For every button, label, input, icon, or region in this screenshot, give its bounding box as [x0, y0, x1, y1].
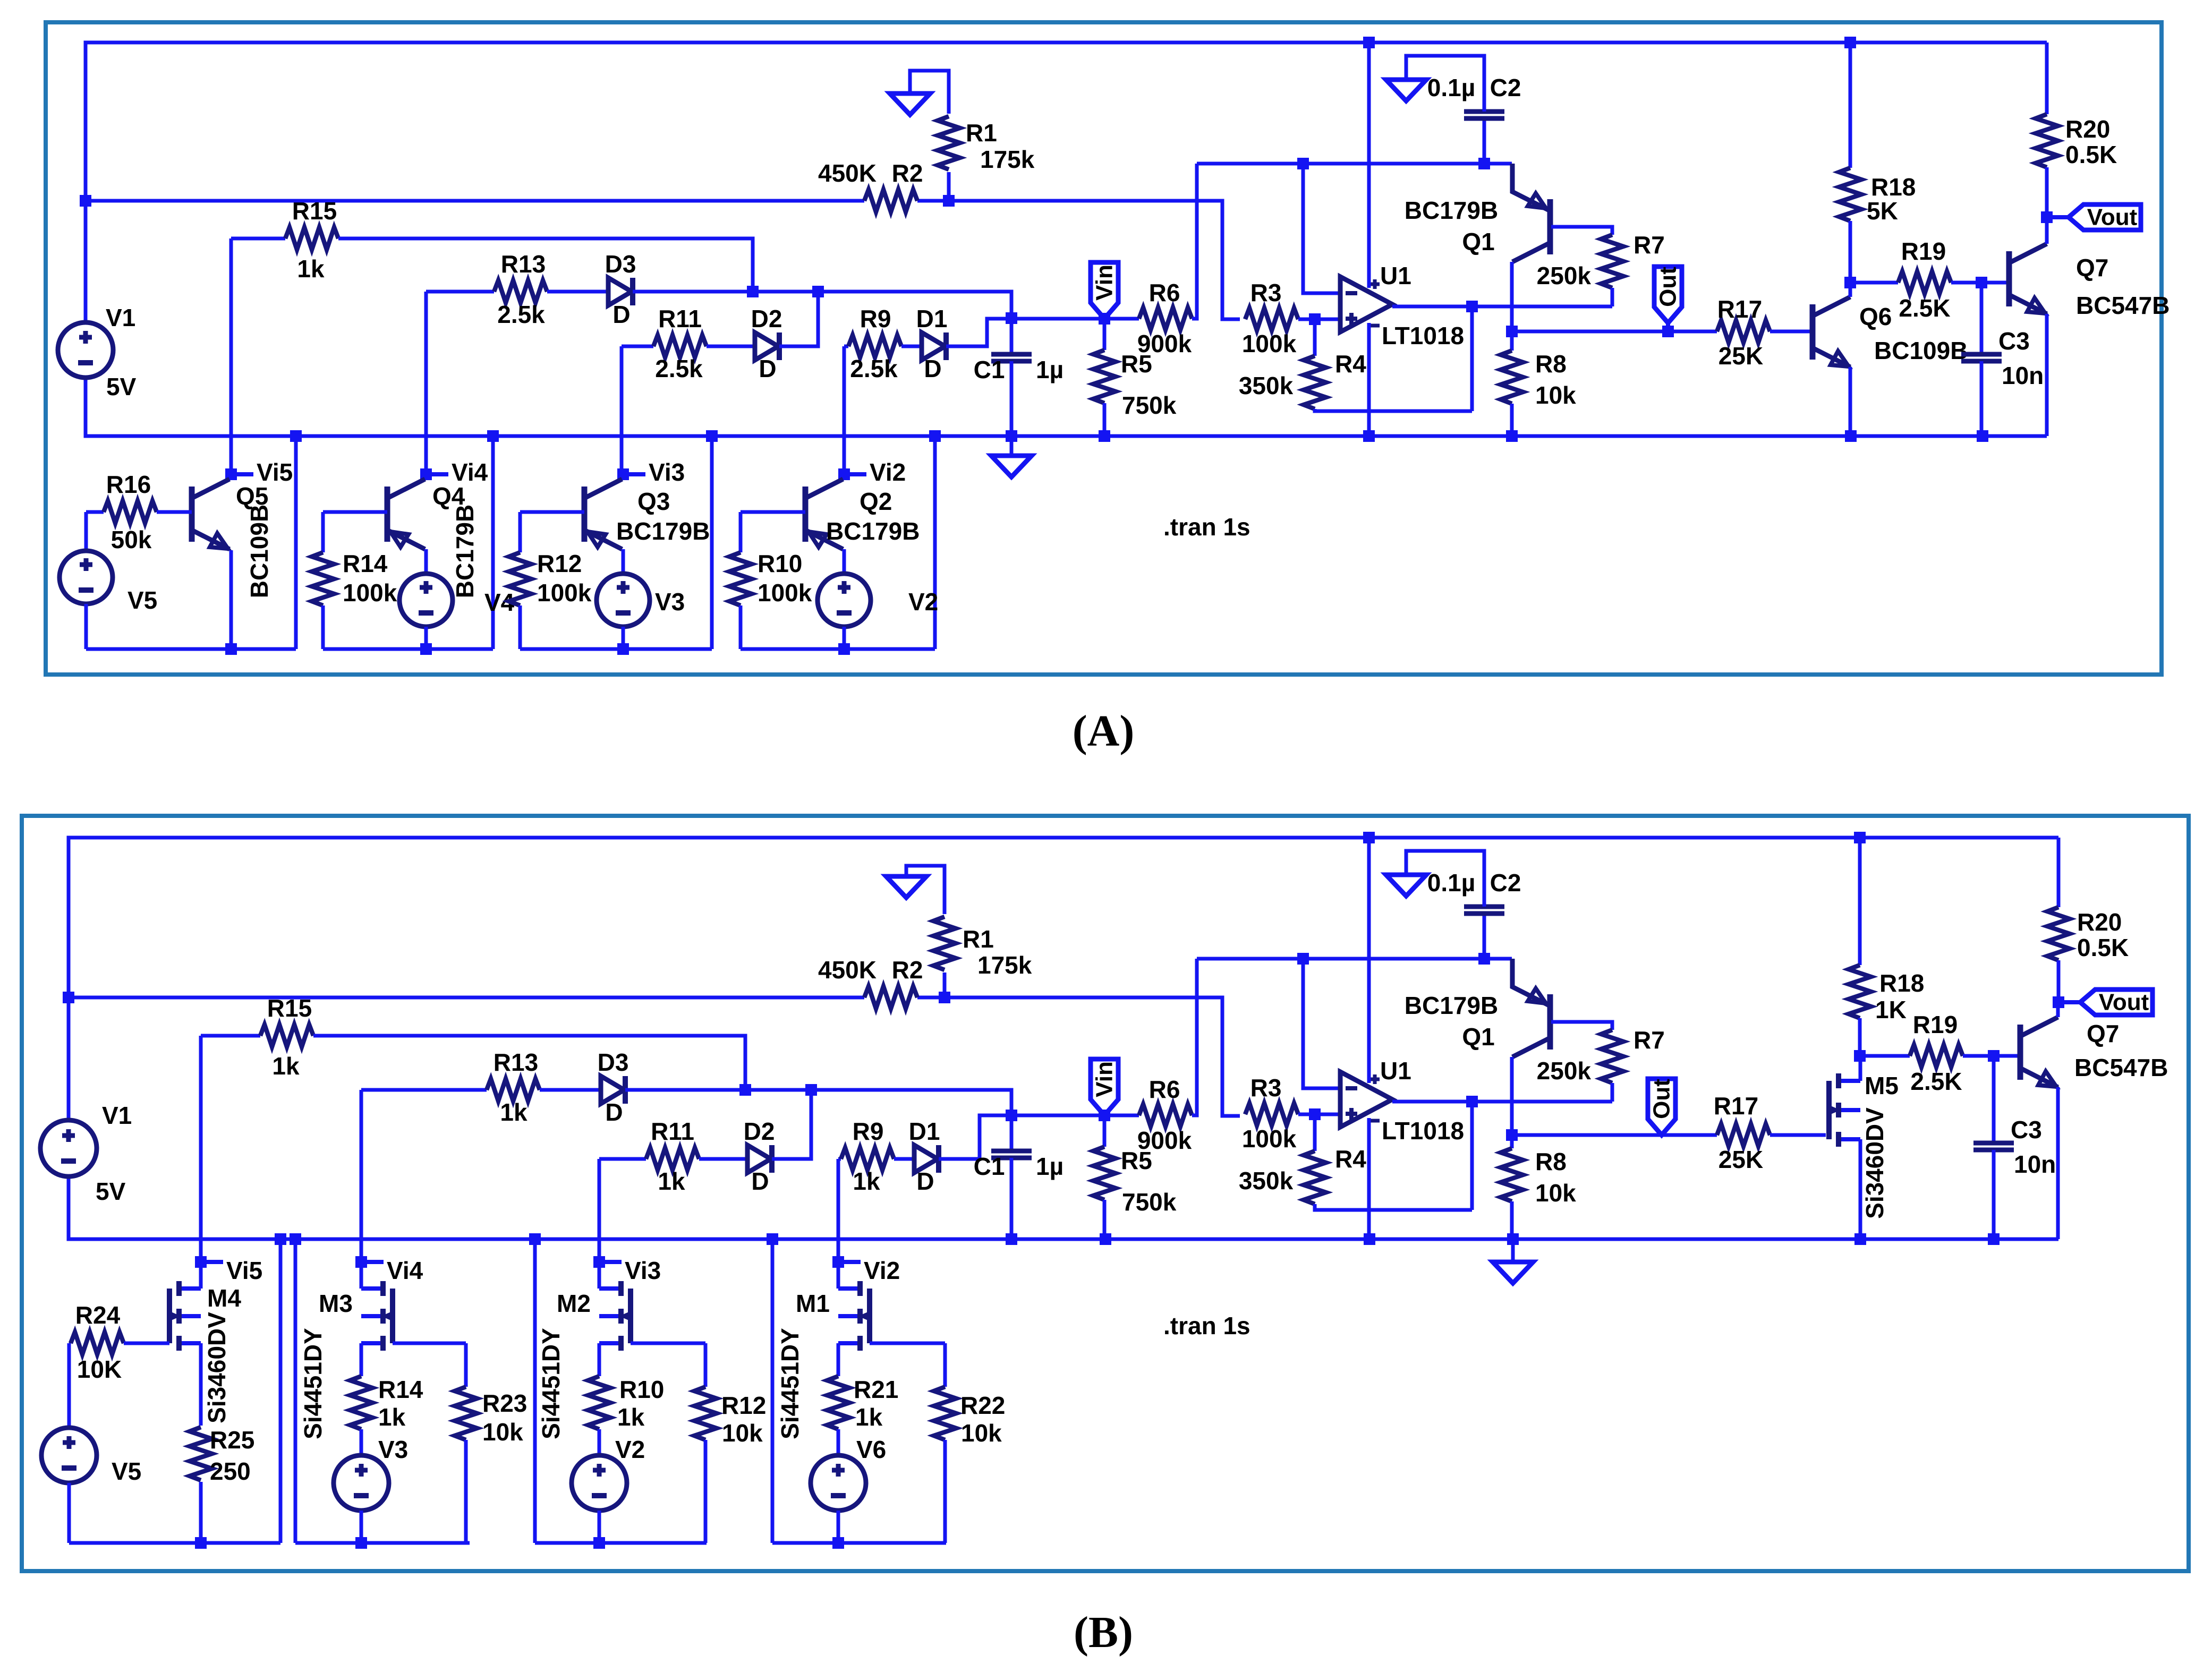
wire M4 drain lead	[199, 1262, 203, 1289]
flag node Out B	[1648, 1079, 1675, 1135]
voltage source V5	[59, 551, 113, 604]
junction R15/D3 row	[747, 286, 759, 297]
wire gate to pull resistor	[870, 1342, 945, 1345]
svg-text:1k: 1k	[272, 1052, 300, 1080]
wire R top lead	[321, 512, 325, 552]
svg-text:25K: 25K	[1718, 342, 1763, 370]
wire C1 bottom lead B	[1010, 1158, 1014, 1239]
wire	[424, 473, 428, 476]
svg-text:10K: 10K	[77, 1355, 122, 1383]
svg-text:1K: 1K	[1875, 996, 1907, 1023]
svg-text:D: D	[751, 1167, 769, 1195]
node Vi2	[850, 472, 866, 476]
svg-text:D3: D3	[598, 1048, 629, 1076]
svg-text:C2: C2	[1490, 869, 1521, 897]
wire drain lead	[360, 1262, 363, 1289]
svg-text:R22: R22	[960, 1392, 1005, 1419]
wire pull res top lead	[464, 1343, 468, 1387]
svg-text:350k: 350k	[1239, 1167, 1294, 1195]
svg-text:Si3460DV: Si3460DV	[1861, 1107, 1888, 1219]
resistor R7	[1601, 235, 1623, 288]
junction Vin node	[1099, 313, 1110, 325]
svg-text:V3: V3	[655, 588, 685, 616]
junction R15/D3 row B	[739, 1084, 751, 1096]
transistor M5 MOSFET Si3460DV	[1839, 1081, 1860, 1139]
svg-text:D1: D1	[909, 1117, 940, 1145]
junction R3/R4	[1309, 313, 1321, 325]
wire R7 bottom lead	[1611, 288, 1614, 306]
svg-text:5V: 5V	[106, 373, 137, 400]
transistor Q6 NPN BC109B	[1810, 304, 1816, 360]
diode D3	[608, 278, 632, 305]
wire	[622, 473, 625, 476]
svg-text:2.5k: 2.5k	[497, 301, 545, 328]
resistor R10	[588, 1376, 610, 1429]
junction Vout node	[2041, 211, 2053, 223]
svg-text:250k: 250k	[1537, 1057, 1592, 1085]
resistor R13	[487, 1079, 540, 1101]
wire Vi3 riser	[620, 346, 624, 474]
svg-text:BC109B: BC109B	[1874, 337, 1968, 364]
wire to inverting input B	[1303, 959, 1340, 1088]
wire R3 to plus input B	[1298, 1113, 1340, 1116]
wire ground rail	[86, 378, 2047, 436]
resistor R15	[260, 1025, 313, 1047]
node Vi3	[605, 1260, 622, 1264]
wire V bottom lead B	[837, 1511, 840, 1543]
wire R6 to threshold row B	[1192, 959, 1197, 1115]
resistor R17	[1717, 1124, 1770, 1146]
svg-text:R7: R7	[1634, 231, 1665, 259]
svg-text:R13: R13	[501, 250, 546, 278]
svg-text:R2: R2	[892, 159, 923, 187]
svg-text:2.5k: 2.5k	[655, 355, 703, 382]
svg-text:5V: 5V	[96, 1178, 126, 1205]
svg-text:C1: C1	[974, 356, 1005, 383]
junction V6 bottom B	[832, 1537, 844, 1549]
wire R to V lead	[360, 1429, 363, 1455]
wire C2 ground hook	[1406, 56, 1484, 112]
wire Q1 emitter stub	[1484, 162, 1512, 166]
resistor R13	[494, 280, 547, 303]
wire R18 bottom lead B	[1858, 1018, 1862, 1056]
svg-text:R6: R6	[1149, 1076, 1180, 1103]
svg-text:100k: 100k	[1242, 1125, 1297, 1153]
wire Q1 base to R7 B	[1551, 1022, 1612, 1030]
wire output row	[1392, 305, 1612, 309]
junction Vi3 B	[593, 1256, 605, 1268]
junction C1 top node	[1006, 312, 1017, 324]
capacitor C3	[1961, 354, 2002, 361]
wire R19 to Q7 base	[1951, 281, 2009, 285]
transistor Q7 NPN BC547B	[2018, 1025, 2023, 1080]
junction Vi4 B	[355, 1256, 367, 1268]
junction V2 bottom B	[593, 1537, 605, 1549]
svg-text:BC547B: BC547B	[2076, 292, 2170, 319]
wire D3 row left	[426, 290, 494, 294]
wire pull res bottom lead	[464, 1440, 468, 1543]
wire R15 to D3 row B	[313, 1036, 745, 1090]
wire R19 to Q7 base B	[1963, 1054, 2020, 1058]
resistor R9	[841, 1148, 894, 1170]
wire R8 top B	[1510, 1135, 1514, 1148]
svg-text:Q7: Q7	[2076, 254, 2108, 281]
svg-text:M1: M1	[796, 1290, 830, 1317]
wire R bottom lead	[739, 605, 743, 649]
svg-text:2.5K: 2.5K	[1910, 1068, 1962, 1095]
svg-text:R11: R11	[658, 305, 702, 332]
svg-text:C3: C3	[1998, 327, 2030, 355]
junction R3/R4 B	[1309, 1108, 1321, 1120]
svg-text:R17: R17	[1714, 1092, 1758, 1120]
wire Q1 collector riser B	[1510, 1057, 1514, 1135]
junction V3 bottom B	[355, 1537, 367, 1549]
wire R20 top lead	[2045, 42, 2049, 114]
wire R1 ground hook	[910, 71, 949, 114]
wire top 5V bus B	[69, 838, 2058, 1120]
wire C2 ground hook B	[1406, 851, 1484, 907]
svg-text:100k: 100k	[758, 579, 812, 607]
wire Q7 emitter to ground rail	[2045, 314, 2049, 436]
svg-text:BC179B: BC179B	[826, 517, 920, 545]
resistor R10	[729, 552, 752, 605]
transistor Q4 PNP BC179B	[385, 487, 390, 542]
op-amp U1 LT1018	[1340, 1072, 1392, 1127]
wire	[598, 1260, 601, 1264]
svg-text:1k: 1k	[853, 1167, 880, 1195]
svg-text:R17: R17	[1717, 295, 1762, 323]
svg-text:Vi4: Vi4	[387, 1257, 423, 1284]
svg-text:R19: R19	[1913, 1011, 1958, 1038]
svg-text:V5: V5	[127, 586, 157, 614]
svg-text:R16: R16	[106, 471, 151, 498]
svg-text:Vi2: Vi2	[864, 1257, 900, 1284]
capacitor C1	[991, 1151, 1032, 1158]
wire V5 bottom lead B	[67, 1483, 71, 1543]
junction cell1 emitter	[225, 643, 237, 655]
resistor R5	[1093, 350, 1116, 403]
ground C1	[991, 456, 1032, 477]
transistor Q1 PNP BC179B	[1547, 994, 1553, 1050]
capacitor C2	[1464, 907, 1504, 914]
resistor R5	[1093, 1147, 1116, 1200]
wire R20 bottom lead	[2045, 167, 2049, 217]
wire top 5V bus	[86, 42, 2047, 322]
svg-text:R15: R15	[267, 994, 312, 1022]
svg-text:LT1018: LT1018	[1382, 1117, 1464, 1145]
wire to inverting input	[1303, 164, 1340, 293]
resistor R4	[1304, 356, 1326, 409]
svg-text:V2: V2	[615, 1436, 645, 1463]
junction D2 riser	[812, 286, 824, 297]
voltage source V5	[41, 1428, 97, 1483]
wire Q7 collector	[2045, 217, 2049, 244]
flag node Vin B	[1091, 1059, 1118, 1115]
svg-text:2.5K: 2.5K	[1899, 294, 1950, 322]
junction cell1 ground B	[275, 1233, 286, 1245]
voltage source V2	[572, 1455, 627, 1511]
svg-text:BC179B: BC179B	[1405, 197, 1498, 224]
resistor R21	[827, 1376, 849, 1429]
wire Out row B	[1512, 1133, 1717, 1137]
svg-text:R12: R12	[721, 1392, 766, 1419]
svg-text:R11: R11	[651, 1117, 694, 1145]
wire drain lead	[598, 1262, 601, 1289]
wire R6 to threshold row	[1192, 164, 1197, 319]
resistor R19	[1910, 1045, 1963, 1067]
wire emitter to V	[424, 549, 428, 574]
svg-text:R10: R10	[758, 550, 802, 577]
svg-text:Vin: Vin	[1092, 1061, 1118, 1097]
ground below bus B	[1493, 1262, 1533, 1283]
wire C3 bottom lead B	[1992, 1150, 1996, 1239]
resistor R12	[509, 552, 531, 605]
svg-text:R1: R1	[966, 119, 997, 147]
resistor R14	[350, 1376, 372, 1429]
svg-text:U1: U1	[1380, 1057, 1411, 1085]
junction C2 node B	[1478, 953, 1490, 965]
svg-text:D: D	[924, 355, 941, 382]
wire R11 row left B	[599, 1157, 646, 1161]
junction V+ riser top B	[1363, 832, 1375, 843]
flag node Vin	[1091, 262, 1118, 319]
wire C2 bottom lead	[1483, 118, 1486, 164]
capacitor C3	[1973, 1143, 2014, 1150]
svg-text:M3: M3	[319, 1290, 353, 1317]
svg-text:10k: 10k	[1535, 381, 1576, 409]
svg-text:1k: 1k	[658, 1167, 685, 1195]
wire cell edge riser	[710, 436, 714, 649]
wire R8 top	[1510, 331, 1514, 351]
wire R3 to plus input	[1298, 318, 1340, 321]
junction cell ground	[706, 430, 718, 442]
wire R17 to M5 gate B	[1770, 1133, 1826, 1137]
svg-text:10k: 10k	[482, 1418, 523, 1446]
svg-text:R13: R13	[494, 1048, 538, 1076]
svg-text:100k: 100k	[1242, 330, 1297, 357]
svg-text:R19: R19	[1901, 237, 1946, 265]
junction V- ground B	[1364, 1233, 1375, 1245]
resistor R9	[848, 335, 901, 357]
junction M5 source ground B	[1854, 1233, 1866, 1245]
junction C3 ground	[1977, 430, 1988, 442]
wire R4 feedback row B	[1315, 1204, 1472, 1210]
svg-text:1k: 1k	[500, 1098, 528, 1126]
junction V2 bottom	[838, 643, 850, 655]
svg-text:0.1µ: 0.1µ	[1427, 74, 1475, 101]
wire op-amp V- riser	[1367, 323, 1371, 436]
resistor R3	[1245, 308, 1298, 330]
wire cell edge riser B	[533, 1239, 537, 1543]
wire D2 to D3 row	[779, 292, 818, 346]
svg-text:100k: 100k	[343, 579, 397, 607]
wire R5 top	[1103, 319, 1107, 350]
wire R9 row left B	[838, 1157, 841, 1161]
svg-text:R24: R24	[75, 1301, 121, 1329]
svg-text:R2: R2	[892, 956, 923, 984]
ground R1	[890, 93, 930, 115]
panel A frame	[46, 22, 2162, 675]
transistor Q7 NPN BC547B	[2006, 251, 2012, 306]
svg-text:R23: R23	[482, 1389, 527, 1417]
wire V bottom lead	[843, 627, 846, 649]
junction cell ground	[929, 430, 941, 442]
capacitor C2	[1464, 112, 1504, 118]
resistor R20	[2036, 114, 2058, 167]
wire Q6 emitter	[1849, 367, 1852, 436]
svg-text:BC179B: BC179B	[451, 505, 479, 598]
wire C2 bottom lead B	[1483, 914, 1486, 959]
wire feedback riser B	[1470, 1102, 1474, 1210]
voltage source V1	[58, 322, 113, 378]
wire 5V bus left segment	[86, 199, 864, 203]
resistor R11	[653, 335, 707, 357]
wire R5 bottom	[1103, 403, 1107, 436]
resistor R23	[455, 1387, 477, 1440]
wire R1 ground hook	[906, 866, 945, 914]
wire R19 left	[1850, 281, 1898, 285]
junction Vi2	[838, 468, 850, 480]
svg-text:250k: 250k	[1537, 262, 1592, 289]
resistor R16	[104, 501, 157, 523]
junction Vi2 B	[832, 1256, 844, 1268]
diode D2	[755, 332, 778, 360]
svg-text:750k: 750k	[1122, 391, 1177, 419]
svg-text:M4: M4	[207, 1284, 241, 1312]
junction R5 ground	[1099, 430, 1110, 442]
svg-text:M5: M5	[1865, 1072, 1899, 1099]
wire V bottom lead B	[598, 1511, 601, 1543]
transistor Q2 PNP BC179B	[803, 487, 809, 542]
svg-text:(A): (A)	[1073, 706, 1135, 756]
junction C1 top node B	[1006, 1110, 1017, 1121]
junction minus-input riser	[1297, 158, 1309, 169]
wire R to base	[323, 510, 387, 514]
resistor R1	[938, 116, 960, 169]
svg-text:Q3: Q3	[637, 488, 670, 515]
wire C3 top lead B	[1992, 1056, 1996, 1143]
svg-text:M2: M2	[557, 1290, 591, 1317]
junction Vi5 B	[195, 1256, 207, 1268]
wire Out row left	[1512, 330, 1717, 334]
svg-text:250: 250	[210, 1457, 251, 1485]
wire R16 left	[86, 510, 104, 514]
svg-text:50k: 50k	[111, 526, 152, 553]
svg-text:175k: 175k	[980, 146, 1035, 173]
wire 5V bus B to R3	[917, 997, 1240, 1116]
svg-text:100k: 100k	[537, 579, 592, 607]
resistor R14	[312, 552, 334, 605]
wire pull res top lead	[943, 1343, 947, 1387]
transistor M4 MOSFET Si3460DV	[179, 1289, 201, 1343]
node Vi4	[432, 472, 448, 476]
svg-text:Si4451DY: Si4451DY	[299, 1328, 327, 1439]
wire ground stub	[1010, 436, 1014, 456]
resistor R2	[864, 190, 917, 212]
junction C3 ground B	[1988, 1233, 2000, 1245]
wire D3 row to C1 node	[633, 292, 1011, 317]
svg-text:R12: R12	[537, 550, 582, 577]
svg-text:R21: R21	[854, 1376, 898, 1403]
wire R11 to D2	[707, 345, 755, 348]
svg-text:0.5K: 0.5K	[2065, 141, 2117, 168]
svg-text:Q1: Q1	[1462, 1023, 1494, 1051]
wire cell edge riser	[933, 436, 937, 649]
node Vi3	[629, 472, 645, 476]
svg-text:V6: V6	[856, 1436, 886, 1463]
svg-text:D1: D1	[916, 305, 948, 332]
svg-text:5K: 5K	[1867, 197, 1898, 225]
wire R25 bottom lead	[199, 1482, 203, 1543]
svg-text:U1: U1	[1380, 262, 1411, 289]
resistor R8	[1501, 351, 1523, 404]
svg-text:2.5k: 2.5k	[850, 355, 898, 382]
voltage source V1	[40, 1120, 97, 1176]
wire R20 bottom lead B	[2057, 960, 2061, 1002]
resistor R20	[2047, 907, 2070, 960]
svg-text:1µ: 1µ	[1036, 356, 1064, 383]
wire drain lead	[837, 1262, 840, 1289]
svg-text:10n: 10n	[2002, 362, 2044, 389]
transistor M3 MOSFET Si4451DY	[361, 1289, 383, 1343]
svg-text:C2: C2	[1490, 74, 1521, 101]
wire R17 to Q6 base	[1770, 330, 1813, 334]
svg-text:Vi5: Vi5	[226, 1257, 262, 1284]
transistor M2 MOSFET Si4451DY	[599, 1289, 621, 1343]
resistor R24	[71, 1332, 124, 1354]
junction Vi4	[420, 468, 432, 480]
junction cell ground B	[767, 1233, 778, 1245]
svg-text:R14: R14	[378, 1376, 423, 1403]
wire C3 top lead	[1980, 283, 1984, 354]
svg-text:V1: V1	[102, 1102, 132, 1129]
voltage source V4	[399, 574, 453, 627]
ground C2 B	[1386, 875, 1426, 896]
wire R1 bottom	[947, 172, 951, 201]
wire R20 top lead B	[2057, 838, 2061, 907]
junction R19/C3 B	[1988, 1050, 2000, 1062]
junction Vin node B	[1099, 1110, 1110, 1121]
svg-text:C3: C3	[2011, 1116, 2042, 1144]
svg-text:Vout: Vout	[2099, 989, 2149, 1016]
wire emitter to V	[843, 549, 846, 574]
svg-text:R25: R25	[210, 1426, 254, 1454]
svg-text:Si3460DV: Si3460DV	[203, 1312, 231, 1423]
svg-text:750k: 750k	[1122, 1188, 1177, 1216]
svg-text:10k: 10k	[961, 1419, 1002, 1447]
node Vi5	[237, 472, 253, 476]
ground C2	[1386, 80, 1426, 101]
wire source lead	[837, 1343, 840, 1376]
junction V3 bottom	[617, 643, 629, 655]
ground R1 B	[886, 876, 926, 898]
wire pull res bottom lead	[943, 1440, 947, 1543]
diode D1	[922, 332, 945, 360]
wire M5 source B	[1859, 1139, 1862, 1239]
svg-text:Vi2: Vi2	[870, 458, 906, 486]
svg-text:V5: V5	[112, 1457, 141, 1485]
svg-text:350k: 350k	[1239, 372, 1294, 399]
node Vi5	[207, 1260, 223, 1264]
svg-text:1k: 1k	[855, 1403, 883, 1431]
resistor R12	[694, 1387, 717, 1440]
junction R5 ground B	[1100, 1233, 1111, 1245]
svg-text:Si4451DY: Si4451DY	[776, 1328, 804, 1439]
wire cell1 edge riser B	[279, 1239, 283, 1543]
svg-text:.tran 1s: .tran 1s	[1163, 513, 1250, 541]
wire pull res bottom lead	[704, 1440, 708, 1543]
wire R11 row left	[622, 345, 653, 348]
